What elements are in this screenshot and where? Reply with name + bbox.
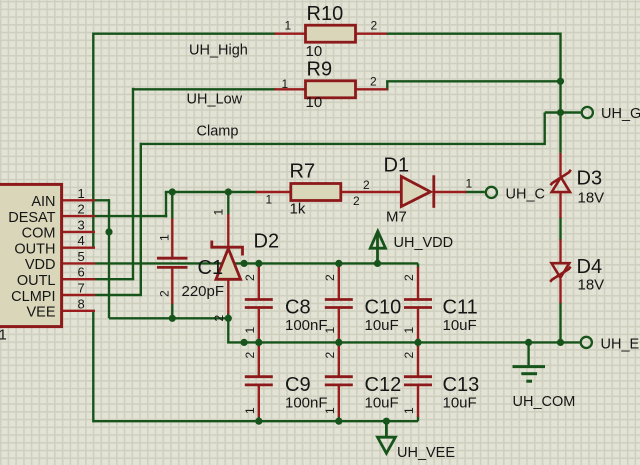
svg-text:1: 1 [285, 19, 292, 33]
wire cap top x=338.8 [338, 263, 340, 268]
ground symbol UH_COM [513, 342, 546, 381]
wire OUTH net vertical from R10 wire down to pin 4 [92, 33, 94, 248]
svg-text:D3: D3 [577, 168, 603, 190]
capacitor C10 top stub [338, 267, 340, 299]
svg-text:2: 2 [323, 274, 337, 281]
wire VDD rail horizontal [95, 262, 418, 264]
node C11/C13 on E rail [414, 339, 421, 346]
svg-text:1: 1 [466, 177, 473, 191]
wire gate node to UH_G terminal [545, 111, 581, 113]
diode D2 pin 1 stub [227, 214, 229, 247]
resistor R7 pin 1 stub [256, 191, 292, 193]
svg-text:UH_Low: UH_Low [187, 91, 243, 107]
svg-text:10: 10 [306, 94, 323, 111]
diode D3 pin stub bottom [559, 192, 561, 218]
svg-text:100nF: 100nF [285, 395, 328, 412]
capacitor C10 bottom stub [338, 309, 340, 339]
terminal UH_E [581, 337, 592, 348]
wire cap mid upper x=338.8 [338, 338, 340, 342]
capacitor C1 pin 1 stub [171, 219, 173, 258]
node C1 bottom on COM rail [169, 315, 176, 322]
diode D4 pin stub top [559, 239, 561, 263]
svg-text:1: 1 [212, 209, 226, 216]
wire cap bottom x=418.0 [417, 417, 419, 422]
wire between D3 and D4 [559, 217, 561, 240]
zener diode D4 cathode bar [550, 267, 570, 282]
node gate junction [557, 109, 564, 116]
wire DESAT rail to R7 [165, 191, 257, 193]
capacitor C11 top stub [417, 267, 419, 299]
capacitor C1 pin 2 stub [171, 269, 173, 305]
wire OUTL net horizontal to R9 pin 1 [133, 88, 275, 90]
svg-text:2: 2 [158, 290, 172, 297]
node UH_VDD on VDD rail [374, 260, 381, 267]
wire cap mid upper x=258.8 [258, 338, 260, 342]
svg-text:3: 3 [78, 217, 85, 232]
wire Clamp to gate node vertical [544, 113, 546, 146]
svg-text:10uF: 10uF [443, 395, 477, 412]
wire VEE rail horizontal [93, 420, 418, 422]
capacitor C11 plates [404, 298, 432, 301]
svg-text:100nF: 100nF [285, 317, 328, 334]
wire pin 2 DESAT horizontal [95, 215, 167, 217]
pin 2 stub of U1 [60, 215, 95, 217]
svg-text:1k: 1k [290, 201, 306, 218]
resistor R9 body [306, 81, 356, 98]
node D4 on E rail [557, 339, 564, 346]
resistor R9 pin 1 stub [274, 88, 306, 90]
pin 4 stub of U1 [60, 246, 95, 248]
svg-text:18V: 18V [578, 276, 605, 293]
svg-text:1: 1 [402, 327, 416, 334]
svg-text:C10: C10 [365, 296, 402, 318]
svg-text:OUTH: OUTH [14, 242, 55, 258]
capacitor C13 bottom stub [417, 386, 419, 417]
wire OUTH net horizontal to R10 pin 1 [93, 33, 275, 35]
svg-text:2: 2 [78, 202, 85, 217]
svg-text:10uF: 10uF [365, 317, 399, 334]
node C9 bottom on VEE rail [255, 418, 262, 425]
svg-text:1: 1 [323, 407, 337, 414]
power symbol UH_VDD arrow [370, 231, 385, 263]
svg-text:2: 2 [212, 315, 226, 322]
svg-text:C1: C1 [198, 257, 224, 279]
wire gate node down to D3 [559, 113, 561, 153]
svg-text:6: 6 [78, 265, 85, 280]
capacitor C13 plates [404, 375, 432, 378]
diode D1 triangle (M7) [401, 177, 430, 207]
wire cap mid lower x=258.8 [258, 342, 260, 347]
svg-text:1: 1 [282, 77, 289, 91]
svg-text:8: 8 [78, 296, 85, 311]
node C1 top on DESAT rail [169, 188, 176, 195]
capacitor C9 top stub [258, 346, 260, 376]
zener diode D3 cathode bar [551, 170, 571, 185]
wire C1 pin 1 upper [171, 192, 173, 220]
wire pin 8 VEE vertical down [92, 311, 94, 423]
svg-text:2: 2 [402, 274, 416, 281]
svg-text:R10: R10 [307, 3, 344, 25]
svg-text:CLMPI: CLMPI [11, 289, 55, 305]
svg-text:C13: C13 [443, 374, 480, 396]
svg-text:1: 1 [78, 186, 85, 201]
node E rail A [241, 339, 248, 346]
svg-text:UH_High: UH_High [189, 42, 248, 58]
diode D1 cathode stub [434, 191, 466, 193]
capacitor C12 plates [325, 375, 353, 378]
svg-text:C12: C12 [365, 374, 402, 396]
node C10 top on VDD rail [335, 260, 342, 267]
resistor R7 pin 2 stub to D1 anode [339, 191, 402, 193]
zener diode D4 triangle [552, 263, 570, 278]
wire cap mid upper x=418.0 [417, 338, 419, 342]
wire OUTL net vertical down to pin 6 [132, 88, 134, 280]
wire R9 pin 2 jog up [386, 81, 388, 90]
svg-text:UH_C: UH_C [506, 187, 545, 203]
node C8 top on VDD rail [255, 260, 262, 267]
wire D4 anode to E rail [559, 302, 561, 342]
IC U1 body (gate driver) [0, 184, 62, 326]
node C12 bottom on VEE rail [335, 418, 342, 425]
resistor R7 body [291, 184, 341, 201]
node R9 to right rail [557, 78, 564, 85]
diode D1 cathode bar [432, 175, 435, 208]
pin 3 stub of U1 [60, 231, 95, 233]
wire Clamp net horizontal [141, 143, 545, 145]
svg-text:OUTL: OUTL [17, 273, 56, 289]
svg-text:1: 1 [323, 327, 337, 334]
svg-text:UH_G: UH_G [601, 106, 640, 122]
svg-text:UH_VEE: UH_VEE [397, 445, 455, 461]
svg-text:UH_COM: UH_COM [513, 394, 576, 410]
svg-text:D4: D4 [577, 256, 603, 278]
wire R10 pin 2 to right rail [386, 33, 560, 35]
zener diode D3 triangle [552, 177, 570, 192]
node UH_VEE on VEE rail [383, 418, 390, 425]
wire cap mid lower x=418.0 [417, 342, 419, 347]
svg-text:VEE: VEE [26, 305, 55, 321]
capacitor C8 top stub [258, 267, 260, 299]
capacitor C12 top stub [338, 346, 340, 376]
capacitor C9 plates [245, 375, 273, 378]
svg-text:D2: D2 [254, 230, 280, 252]
svg-text:2: 2 [243, 274, 257, 281]
capacitor C1 plates [157, 257, 188, 260]
svg-text:1: 1 [243, 327, 257, 334]
resistor R9 pin 2 stub [355, 88, 388, 90]
wire DESAT vertical up [165, 192, 167, 217]
svg-text:COM: COM [22, 226, 56, 242]
node D2 top on DESAT rail [225, 188, 232, 195]
pin 7 stub of U1 [60, 294, 95, 296]
svg-text:UH_VDD: UH_VDD [394, 235, 454, 251]
svg-text:2: 2 [402, 352, 416, 359]
diode D2 pin 2 green [227, 314, 229, 318]
diode D2 pin 2 stub [227, 280, 229, 315]
capacitor C12 bottom stub [338, 386, 340, 417]
pin 5 stub of U1 [60, 262, 95, 264]
svg-text:M7: M7 [386, 209, 407, 226]
wire pin 6 OUTL horizontal [95, 278, 134, 280]
capacitor C11 bottom stub [417, 309, 419, 339]
svg-text:10uF: 10uF [365, 395, 399, 412]
svg-text:1: 1 [158, 234, 172, 241]
svg-text:D1: D1 [384, 155, 410, 177]
svg-text:Clamp: Clamp [197, 123, 239, 139]
svg-text:2: 2 [243, 352, 257, 359]
wire E rail horizontal [227, 341, 579, 343]
svg-text:2: 2 [371, 19, 378, 33]
wire C1 pin 2 lower [171, 303, 173, 318]
diode D4 pin stub bottom [559, 279, 561, 303]
diode D3 pin stub top [559, 153, 561, 177]
pin 6 stub of U1 [60, 278, 95, 280]
wire cap mid lower x=338.8 [338, 342, 340, 347]
svg-text:220pF: 220pF [182, 283, 225, 300]
svg-text:1: 1 [0, 327, 7, 344]
node C10/C12 on E rail [335, 339, 342, 346]
svg-text:7: 7 [78, 281, 85, 296]
wire pin 7 CLMPI horizontal [95, 294, 142, 296]
svg-text:AIN: AIN [31, 194, 55, 210]
capacitor C9 bottom stub [258, 386, 260, 417]
svg-text:10: 10 [306, 43, 323, 60]
terminal UH_C [486, 187, 497, 198]
wire cap bottom x=338.8 [338, 417, 340, 422]
svg-text:1: 1 [243, 407, 257, 414]
wire D2 anode down to E rail [227, 317, 229, 342]
svg-text:1: 1 [266, 193, 273, 207]
resistor R10 pin 1 stub [274, 33, 306, 35]
node D2 bottom on COM rail [225, 315, 232, 322]
svg-text:10uF: 10uF [443, 317, 477, 334]
svg-text:2: 2 [363, 178, 370, 192]
svg-text:UH_E: UH_E [601, 337, 640, 353]
wire Clamp net vertical down to pin 7 [140, 143, 142, 295]
svg-text:C8: C8 [285, 296, 311, 318]
capacitor C8 plates [245, 298, 273, 301]
wire AIN/COM vertical [108, 199, 110, 318]
power symbol UH_VEE arrow [378, 422, 396, 454]
capacitor C13 top stub [417, 346, 419, 376]
wire cap top x=258.8 [258, 263, 260, 268]
capacitor C8 bottom stub [258, 309, 260, 339]
wire right rail vertical (gate net) [559, 33, 561, 113]
capacitor C10 plates [325, 298, 353, 301]
diode D2 pin 1 green [227, 192, 229, 215]
svg-text:2: 2 [323, 352, 337, 359]
wire R9 output to right rail [386, 80, 560, 82]
svg-text:R9: R9 [307, 59, 333, 81]
zener diode D2 cathode bar [212, 241, 243, 256]
svg-text:DESAT: DESAT [8, 210, 55, 226]
node ground on E rail [525, 339, 532, 346]
svg-text:C11: C11 [443, 296, 478, 318]
zener diode D2 triangle [216, 249, 241, 280]
node C8/C9 on E rail [255, 339, 262, 346]
svg-text:VDD: VDD [25, 257, 56, 273]
terminal UH_G [582, 107, 593, 118]
svg-text:1: 1 [402, 407, 416, 414]
pin 8 stub of U1 [60, 310, 95, 312]
wire cap top x=418.0 [417, 263, 419, 268]
wire pin 1 AIN to vertical [95, 199, 109, 201]
pin 1 stub of U1 [60, 199, 95, 201]
svg-text:2: 2 [370, 75, 377, 89]
wire COM rail horizontal y=318 [109, 317, 228, 319]
svg-text:R7: R7 [290, 161, 316, 183]
svg-text:2: 2 [353, 194, 360, 208]
resistor R10 body [306, 25, 356, 42]
svg-text:4: 4 [78, 233, 85, 248]
svg-text:18V: 18V [578, 190, 605, 207]
node VDD rail A [241, 260, 248, 267]
node pin3 COM junction [105, 228, 112, 235]
wire D1 cathode to UH_C terminal [465, 191, 485, 193]
wire cap bottom x=258.8 [258, 417, 260, 422]
svg-text:5: 5 [78, 249, 85, 264]
resistor R10 pin 2 stub [355, 33, 387, 35]
svg-text:C9: C9 [285, 374, 311, 396]
